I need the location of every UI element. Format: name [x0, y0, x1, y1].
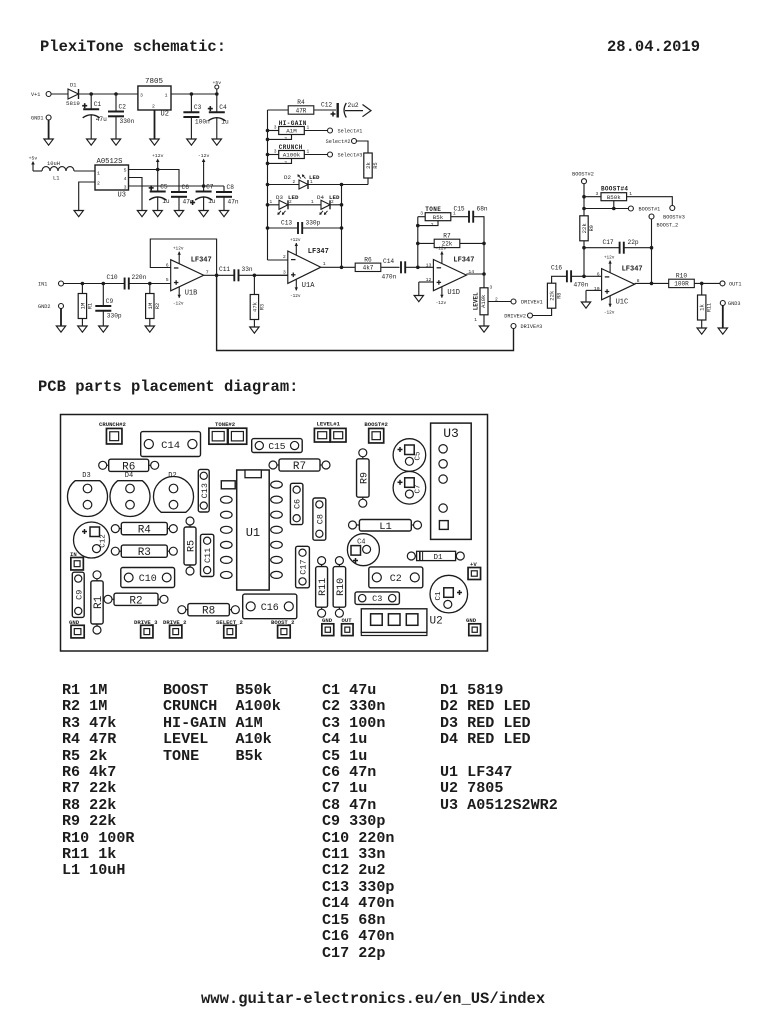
potentiometer CRUNCH A100k: [274, 144, 310, 166]
wire U1D pin12: [419, 281, 434, 283]
svg-text:R3: R3: [259, 304, 265, 310]
svg-text:U1C: U1C: [616, 298, 629, 306]
svg-text:C13: C13: [200, 483, 210, 498]
PCB capacitor C9: [72, 572, 84, 617]
svg-text:47u: 47u: [96, 116, 107, 123]
svg-text:LEVEL#1: LEVEL#1: [317, 420, 341, 427]
svg-text:B5k: B5k: [433, 214, 444, 221]
ground: [56, 326, 65, 332]
svg-text:BOOST_2: BOOST_2: [657, 223, 679, 229]
terminal GND2: [38, 304, 64, 311]
PCB pad LEVEL#1 a: [314, 428, 330, 442]
wire: [90, 94, 92, 109]
wire tone bus: [417, 217, 419, 268]
svg-text:DRIVE_2: DRIVE_2: [163, 619, 187, 626]
ground: [187, 139, 196, 145]
PCB U1 right pins: [271, 481, 283, 578]
wire: [308, 184, 368, 186]
svg-text:BOOST#4: BOOST#4: [601, 186, 628, 193]
PCB resistor R7: [269, 459, 330, 473]
wire U1C output: [635, 282, 669, 284]
svg-text:+5v: +5v: [212, 80, 221, 86]
wire TONE wiper: [418, 221, 438, 226]
svg-text:OUT1: OUT1: [729, 282, 741, 288]
svg-text:R8: R8: [557, 293, 563, 299]
PCB capacitor C14: [141, 432, 201, 457]
svg-text:2: 2: [293, 180, 296, 185]
junction: [416, 242, 420, 246]
resistor R10 100R: [669, 272, 695, 287]
terminal BOOST#1: [628, 206, 660, 213]
wire: [102, 311, 104, 326]
svg-text:3: 3: [274, 125, 277, 131]
PCB diode D1: [407, 551, 464, 562]
ground: [581, 302, 590, 308]
terminal DRIVE#3: [511, 324, 542, 331]
svg-text:3: 3: [124, 185, 127, 191]
svg-text:47n: 47n: [228, 199, 239, 206]
wire C17 row: [584, 247, 620, 249]
parts list column 2: [163, 682, 281, 764]
svg-text:7: 7: [206, 269, 209, 275]
svg-text:330p: 330p: [107, 313, 122, 320]
wire: [701, 283, 703, 295]
junction: [114, 92, 118, 96]
junction: [582, 246, 586, 250]
ground: [212, 139, 221, 145]
PCB pad DRIVE_3: [134, 619, 158, 638]
junction: [482, 242, 486, 246]
svg-text:3: 3: [274, 149, 277, 155]
resistor R7 22k: [434, 232, 460, 247]
capacitor C5 1u: [149, 183, 170, 205]
wire GND2: [60, 309, 62, 327]
capacitor C11 33n: [219, 266, 253, 281]
svg-text:Select#1: Select#1: [338, 129, 363, 135]
junction: [582, 207, 586, 211]
ground: [99, 326, 108, 332]
wire U1C pin10: [586, 289, 602, 291]
svg-text:13: 13: [426, 262, 432, 268]
terminal GND1: [31, 115, 51, 122]
svg-text:U1: U1: [246, 526, 260, 540]
svg-text:-12v: -12v: [173, 301, 184, 306]
svg-text:D4: D4: [125, 472, 133, 480]
wire U1B feedback: [150, 239, 216, 275]
wire: [239, 274, 288, 276]
potentiometer LEVEL A10k: [472, 285, 498, 324]
wire: [190, 94, 192, 112]
junction: [650, 246, 654, 250]
LED D3: [277, 200, 288, 215]
PCB section heading: [38, 378, 298, 396]
junction: [266, 162, 270, 166]
resistor R5 2k: [364, 153, 379, 178]
potentiometer HI-GAIN A1M: [274, 120, 310, 142]
wire U1B output: [204, 274, 235, 276]
op-amp U1A: [283, 238, 329, 299]
svg-text:C6: C6: [182, 184, 190, 191]
wire: [624, 247, 652, 249]
converter U3 A0512S: [95, 158, 129, 200]
wire: [330, 204, 342, 206]
svg-text:R11: R11: [318, 578, 329, 596]
resistor R11 1k: [698, 295, 713, 320]
wire C15 to level: [473, 217, 484, 288]
svg-text:R10: R10: [336, 578, 347, 596]
PCB capacitor C11: [201, 534, 214, 576]
svg-text:C16: C16: [551, 265, 562, 272]
resistor R4 47R: [288, 99, 314, 114]
svg-text:C5: C5: [415, 451, 423, 461]
footer url: [201, 990, 545, 1008]
svg-text:C6: C6: [293, 499, 303, 509]
svg-text:R5: R5: [187, 540, 198, 552]
resistor R2 1M: [146, 294, 161, 319]
wire: [79, 93, 138, 95]
LED D2: [297, 174, 308, 189]
PCB IC U1 LF347: [237, 470, 270, 590]
ground: [137, 211, 146, 217]
svg-text:DRIVE#2: DRIVE#2: [504, 314, 526, 320]
svg-text:-12v: -12v: [604, 310, 615, 315]
wire: [381, 266, 400, 268]
svg-text:C9: C9: [106, 298, 114, 305]
wire: [460, 242, 484, 244]
svg-text:3: 3: [140, 93, 143, 99]
PCB pad IN: [70, 551, 83, 570]
svg-text:BOOST#3: BOOST#3: [663, 215, 685, 221]
junction: [482, 272, 486, 276]
terminal BOOST_2: [649, 214, 678, 229]
svg-text:D1: D1: [70, 83, 76, 89]
svg-text:R4: R4: [297, 99, 305, 106]
ground: [44, 139, 53, 145]
wire BOOST wiper: [613, 201, 615, 209]
wire R8 to C16: [552, 276, 567, 283]
PCB LED D3: [67, 472, 107, 516]
PCB capacitor C15: [252, 439, 303, 453]
svg-text:C8: C8: [227, 184, 235, 191]
wire: [451, 216, 469, 218]
wire: [149, 319, 151, 327]
wire: [405, 266, 433, 268]
wire: [203, 198, 205, 211]
wire: [584, 196, 601, 198]
svg-text:C11: C11: [203, 548, 213, 563]
svg-text:BOOST#1: BOOST#1: [639, 207, 661, 213]
svg-text:A1M: A1M: [286, 128, 297, 135]
svg-text:LF347: LF347: [622, 266, 643, 274]
PCB regulator U2 7805: [361, 609, 442, 636]
svg-text:1u: 1u: [162, 198, 170, 205]
ground: [78, 326, 87, 332]
PCB pad GND right: [466, 617, 481, 636]
capacitor C1 47u: [82, 101, 107, 123]
terminal GND3: [720, 301, 740, 308]
wire input: [64, 283, 125, 285]
capacitor C14 470n: [382, 258, 406, 281]
wire: [171, 93, 217, 95]
junction: [148, 282, 152, 286]
svg-text:GND3: GND3: [728, 301, 740, 307]
ground: [74, 211, 83, 217]
wire -12v rail: [129, 185, 225, 187]
svg-text:2u2: 2u2: [348, 102, 359, 109]
svg-text:1: 1: [97, 171, 100, 177]
wire boost bus: [583, 184, 585, 277]
wire: [178, 197, 180, 211]
svg-text:1u: 1u: [221, 119, 229, 126]
svg-text:A10k: A10k: [480, 294, 487, 308]
PCB capacitor C17: [296, 546, 310, 588]
svg-text:22k: 22k: [549, 290, 556, 301]
power +5v: [212, 80, 221, 94]
PCB module U3 A0512S: [431, 423, 472, 539]
svg-text:+12v: +12v: [436, 247, 447, 252]
svg-text:A100k: A100k: [283, 152, 301, 159]
PCB pad DRIVE_2: [163, 619, 187, 638]
wire GND1: [48, 120, 50, 139]
PCB pad +V: [468, 561, 481, 580]
ground: [697, 328, 706, 334]
capacitor C3 100n: [183, 104, 210, 126]
junction: [266, 138, 270, 142]
svg-text:L1: L1: [53, 176, 59, 182]
junction: [215, 274, 219, 278]
svg-text:GND: GND: [322, 617, 333, 624]
date: [607, 38, 700, 56]
wire: [129, 283, 171, 285]
capacitor C10 220n: [107, 274, 147, 290]
PCB LED D2: [154, 472, 194, 512]
ground: [153, 211, 162, 217]
svg-text:R7: R7: [443, 232, 451, 239]
svg-text:5: 5: [166, 277, 169, 283]
svg-text:DRIVE_3: DRIVE_3: [134, 619, 158, 626]
ground: [199, 211, 208, 217]
capacitor C7 1u: [190, 183, 216, 205]
wire: [149, 284, 151, 294]
PCB resistor R3: [111, 545, 177, 559]
wire to U1A pin2: [268, 259, 288, 261]
wire: [81, 319, 83, 327]
svg-text:1: 1: [307, 149, 310, 155]
inductor L1 10uH: [42, 161, 74, 182]
svg-text:GND: GND: [69, 619, 80, 626]
potentiometer BOOST B50k: [596, 186, 633, 201]
wire: [357, 141, 369, 153]
capacitor C2 330n: [108, 103, 135, 125]
svg-text:LF347: LF347: [453, 257, 474, 265]
PCB capacitor C2: [369, 567, 423, 588]
svg-text:R1: R1: [87, 303, 93, 309]
label LEVEL#1: [317, 420, 341, 427]
wire: [223, 186, 225, 192]
svg-text:CRUNCH: CRUNCH: [279, 144, 303, 151]
terminal BOOST#3: [670, 206, 675, 211]
svg-text:1M: 1M: [147, 303, 154, 310]
ground: [87, 139, 96, 145]
ground: [111, 139, 120, 145]
PCB LED D4: [110, 472, 150, 516]
junction: [266, 203, 270, 207]
svg-text:CRUNCH#2: CRUNCH#2: [99, 421, 126, 428]
resistor R1 1M: [78, 294, 93, 319]
svg-text:C17: C17: [603, 239, 614, 246]
svg-text:R9: R9: [359, 472, 370, 484]
wire U1D output: [466, 273, 484, 275]
terminal IN1: [38, 281, 64, 288]
junction: [340, 266, 344, 270]
svg-text:C5: C5: [160, 183, 168, 190]
resistor R3 47k: [250, 295, 265, 320]
svg-text:TONE: TONE: [425, 206, 441, 213]
svg-text:1u: 1u: [208, 198, 216, 205]
wire U3 pin2: [79, 182, 95, 211]
svg-text:R8: R8: [202, 606, 215, 618]
LED D2 labels: [284, 174, 291, 181]
terminal V+1: [31, 92, 51, 99]
svg-text:+V: +V: [470, 561, 477, 568]
PCB capacitor C12: [74, 522, 110, 558]
svg-text:C10: C10: [107, 274, 118, 281]
svg-text:10: 10: [594, 286, 600, 292]
junction: [340, 203, 344, 207]
svg-text:47k: 47k: [251, 301, 258, 312]
capacitor C12 2u2: [321, 102, 359, 118]
capacitor C15 68n: [454, 206, 488, 223]
svg-text:U1D: U1D: [447, 289, 460, 297]
PCB capacitor C4: [347, 534, 379, 566]
power +5v: [29, 156, 38, 172]
wire: [190, 117, 192, 139]
PCB resistor R1: [91, 571, 105, 634]
capacitor C6 47n: [171, 184, 194, 206]
wire: [115, 94, 117, 112]
svg-text:U3: U3: [118, 192, 126, 200]
svg-text:GND1: GND1: [31, 116, 43, 122]
svg-text:C9: C9: [74, 590, 84, 600]
wire +12v rail: [129, 170, 180, 193]
svg-text:C8: C8: [315, 514, 325, 524]
svg-text:470n: 470n: [382, 274, 397, 281]
PCB capacitor C1: [430, 575, 468, 613]
svg-text:R6: R6: [364, 256, 372, 263]
svg-text:V+1: V+1: [31, 92, 40, 98]
svg-text:22p: 22p: [628, 239, 639, 246]
junction: [416, 266, 420, 270]
ground: [414, 296, 423, 302]
svg-text:U1A: U1A: [302, 282, 315, 290]
svg-text:DRIVE#3: DRIVE#3: [521, 324, 543, 330]
svg-text:-12v: -12v: [198, 153, 210, 159]
wire HI-GAIN wiper: [268, 135, 292, 140]
svg-text:R2: R2: [129, 595, 142, 607]
PCB resistor R9: [357, 449, 371, 507]
junction: [266, 226, 270, 230]
wire: [203, 186, 205, 192]
PCB resistor R8: [178, 604, 240, 618]
wire U1A output: [321, 266, 355, 268]
wire: [304, 130, 327, 132]
LED D4: [319, 200, 330, 215]
svg-text:GND2: GND2: [38, 304, 50, 310]
op-amp U1C: [594, 256, 643, 316]
svg-text:R10: R10: [676, 272, 687, 279]
svg-text:C12: C12: [321, 102, 332, 109]
capacitor C4 1u: [208, 104, 229, 126]
wire U3 pin4: [129, 178, 143, 211]
svg-text:SELECT_2: SELECT_2: [216, 619, 243, 626]
terminal BOOST#2: [572, 172, 594, 184]
svg-text:R1: R1: [93, 595, 105, 609]
svg-text:2: 2: [283, 254, 286, 260]
svg-text:+12v: +12v: [152, 153, 164, 159]
svg-text:4: 4: [124, 176, 127, 182]
svg-text:BOOST#2: BOOST#2: [364, 421, 388, 428]
PCB resistor R5: [184, 517, 198, 575]
ground: [150, 139, 159, 145]
PCB pad TONE#2 a: [209, 428, 228, 444]
wire: [418, 242, 434, 244]
svg-text:C4: C4: [357, 539, 365, 547]
svg-text:DRIVE#1: DRIVE#1: [521, 300, 543, 306]
svg-text:1: 1: [629, 191, 632, 197]
svg-text:TONE#2: TONE#2: [215, 421, 236, 428]
svg-text:33n: 33n: [242, 266, 253, 273]
svg-text:220n: 220n: [132, 274, 147, 281]
svg-text:R7: R7: [293, 461, 306, 473]
junction: [650, 282, 654, 286]
svg-text:HI-GAIN: HI-GAIN: [279, 120, 307, 127]
wire: [268, 130, 280, 132]
svg-text:C11: C11: [219, 266, 230, 273]
wire: [33, 170, 42, 172]
wire: [314, 109, 336, 111]
wire gain bus: [267, 110, 269, 260]
svg-text:-12v: -12v: [436, 301, 447, 306]
wire: [288, 204, 321, 206]
svg-text:1: 1: [311, 200, 314, 205]
wire: [268, 154, 280, 156]
wire: [102, 284, 104, 307]
label BOOST#3: [663, 215, 685, 221]
PCB resistor R6: [99, 459, 159, 473]
PCB pad CRUNCH#2: [99, 421, 126, 444]
svg-text:+12v: +12v: [290, 238, 301, 243]
svg-text:R2: R2: [155, 303, 161, 309]
wire: [701, 320, 703, 328]
svg-text:2k: 2k: [365, 162, 372, 169]
resistor R9 22k: [580, 216, 595, 241]
wire: [157, 198, 159, 211]
svg-text:OUT: OUT: [342, 617, 353, 624]
svg-text:C7: C7: [206, 183, 214, 190]
PCB capacitor C13: [198, 469, 210, 512]
capacitor C16 470n: [551, 265, 589, 289]
svg-text:R11: R11: [707, 303, 713, 312]
PCB pad BOOST#2: [364, 421, 388, 443]
svg-text:1M: 1M: [79, 303, 86, 310]
svg-text:4k7: 4k7: [363, 265, 374, 272]
PCB resistor R2: [104, 593, 168, 607]
junction: [253, 274, 257, 278]
junction: [102, 282, 106, 286]
wire: [223, 197, 225, 211]
PCB board outline: [61, 415, 488, 652]
svg-text:R9: R9: [589, 225, 595, 231]
